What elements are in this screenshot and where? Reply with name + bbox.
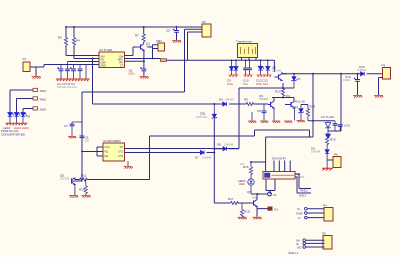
svg-text:OT2: OT2 (118, 155, 123, 158)
svg-text:Q4: Q4 (286, 94, 290, 98)
capacitor C7 (64, 122, 82, 136)
svg-text:1N4148: 1N4148 (311, 149, 321, 153)
resistor R18 (240, 203, 249, 217)
diode D7 on bus2 (195, 151, 214, 160)
wire P2 pin3 vertical (188, 32, 203, 60)
pad terminal (268, 207, 278, 212)
svg-text:D8: D8 (217, 143, 221, 147)
resistor R10 (275, 89, 285, 98)
zener ZD2 (291, 74, 300, 88)
svg-text:R12 1K: R12 1K (295, 100, 305, 104)
svg-text:104: 104 (243, 82, 248, 86)
wire to ground bar (85, 65, 87, 80)
label cluster1 (227, 79, 234, 86)
resistor R7 (135, 27, 145, 44)
wire TL431 base y120.7 (308, 120, 335, 122)
transistor Q5 (60, 174, 82, 185)
capacitor C18 (338, 124, 350, 132)
capacitor C17 (333, 121, 338, 131)
wire IC1 pin7 (125, 60, 144, 62)
svg-text:R18: R18 (244, 210, 250, 214)
junction dot x313 sense (312, 120, 314, 122)
svg-text:R14: R14 (79, 188, 85, 192)
zener ZD3 (295, 105, 304, 121)
ground under C15 (353, 96, 362, 98)
ground under R18 (238, 217, 247, 219)
wire IC1 pin4 from P1 (30, 65, 99, 68)
wire emitter node y88 (239, 83, 294, 88)
svg-text:P2: P2 (202, 20, 206, 24)
transistor Q2 (272, 66, 287, 81)
capacitor C2 (65, 62, 70, 80)
svg-text:CONVERTER BD: CONVERTER BD (1, 133, 26, 137)
svg-text:SW1: SW1 (40, 89, 47, 93)
opto top pins (272, 159, 290, 172)
wire IC1 pin6 (125, 58, 161, 60)
svg-text:CT: CT (120, 64, 124, 67)
capacitor C6 emitter (129, 50, 147, 76)
capacitor C5 polar (166, 27, 179, 40)
LED3 (21, 113, 31, 124)
wire IC1 pin2 (74, 58, 99, 60)
svg-text:1N4148: 1N4148 (225, 98, 235, 102)
wire main rail y74 (282, 73, 362, 75)
svg-text:VCC: VCC (105, 146, 110, 149)
wire bus y61 to transformer and Q2 (188, 60, 275, 72)
text block lower left (1, 129, 26, 137)
ground under Q6 (253, 217, 262, 219)
connector P1 (23, 57, 31, 72)
resistor R8 small (161, 59, 188, 62)
opto right wires to net labels (295, 174, 311, 198)
ground under P1 (32, 67, 41, 79)
svg-text:R11: R11 (81, 174, 87, 178)
svg-text:104 10u 104 10u: 104 10u 104 10u (57, 85, 77, 89)
wire collector rail y97.5 (272, 98, 294, 102)
wires U2 left pins (82, 147, 103, 156)
svg-text:Z1: Z1 (297, 77, 301, 81)
ground cluster3 (257, 75, 272, 77)
ground under P6 branch (322, 160, 333, 171)
label cluster3 (256, 79, 268, 86)
IC U2 (103, 139, 125, 161)
svg-text:IADJ: IADJ (299, 194, 306, 198)
wire sense vertical x313 (312, 74, 314, 137)
opto bottom pins (266, 179, 275, 194)
junction dots x214 (213, 148, 215, 154)
jumper J3 (33, 107, 46, 112)
svg-text:D6: D6 (219, 98, 223, 102)
wire IC1 out pin5 (125, 47, 138, 56)
wire feedback vertical x239 (238, 88, 240, 149)
svg-text:1K2: 1K2 (240, 162, 245, 166)
svg-text:P1: P1 (23, 57, 27, 61)
ground under C5 (172, 41, 181, 43)
ground under C6 (139, 77, 148, 79)
transistor Q1 (138, 42, 153, 51)
diode D9 (311, 147, 329, 161)
ground under R12 (81, 196, 90, 198)
svg-text:Transformer: Transformer (236, 40, 252, 44)
svg-text:2SC945: 2SC945 (272, 68, 282, 72)
svg-text:VR1: VR1 (156, 39, 162, 43)
svg-text:VH: VH (120, 146, 124, 149)
wire main top rail y27 (66, 26, 202, 28)
LED2 (14, 113, 20, 124)
resistor R5 (58, 27, 68, 56)
svg-text:P6: P6 (334, 153, 338, 157)
TL431 U3 (321, 115, 334, 134)
IC U1 (99, 48, 125, 68)
svg-text:LED1: LED1 (3, 126, 11, 130)
capacitor C15 output (343, 74, 360, 95)
svg-text:100u 104: 100u 104 (256, 82, 268, 86)
wire U2 output bus2 y152.5 (125, 152, 201, 154)
svg-text:V-: V- (298, 216, 301, 220)
diode D6 on wire B (219, 98, 234, 107)
capacitor C14 (257, 105, 266, 121)
opto input resistor R15 (240, 162, 253, 179)
svg-text:1N4148: 1N4148 (224, 143, 234, 147)
svg-text:104: 104 (85, 138, 90, 142)
svg-text:SW2: SW2 (40, 98, 47, 102)
ground under P3 (374, 78, 383, 98)
capacitor C3 (70, 65, 76, 80)
svg-text:LED2 LED3: LED2 LED3 (14, 126, 29, 130)
svg-text:U3 TL431: U3 TL431 (321, 115, 334, 119)
wire IC1 pin1 (66, 55, 99, 57)
junction dots y194 (250, 161, 259, 195)
svg-text:IN1: IN1 (105, 151, 109, 154)
optocoupler U4 (263, 172, 305, 180)
wire P2 pin2 vertical (185, 29, 203, 92)
svg-text:2SD880: 2SD880 (259, 97, 269, 101)
resistor R19 sense diode branch (326, 131, 336, 150)
svg-text:V1: V1 (273, 193, 277, 197)
svg-text:U2 MC34063: U2 MC34063 (103, 139, 121, 143)
svg-text:1N4744A: 1N4744A (196, 115, 207, 119)
wire A vertical x82 (81, 92, 83, 181)
connector P2 (202, 20, 211, 37)
svg-text:GND: GND (101, 64, 107, 67)
transformer T1 (236, 40, 258, 58)
svg-text:OT1: OT1 (118, 151, 123, 154)
inductor L1 (357, 65, 383, 76)
wire VR1 pins (148, 45, 158, 59)
junction dots bus (152, 58, 269, 62)
svg-text:G1: G1 (274, 208, 278, 212)
LED1 (8, 113, 14, 124)
wire collector net y194 (251, 193, 268, 195)
svg-text:P4: P4 (323, 204, 327, 208)
svg-text:SW3: SW3 (40, 108, 47, 112)
capacitor C10 (243, 60, 248, 75)
resistor R12 pulldown (79, 180, 87, 196)
svg-text:D7: D7 (195, 156, 199, 160)
svg-text:U1 TL494: U1 TL494 (99, 48, 112, 52)
wire Q6 base y203 (214, 202, 250, 204)
wire A y92 (82, 91, 185, 93)
diode D2 (230, 60, 234, 75)
wire diode D8 row y148.7 (214, 148, 239, 150)
capacitor C8 bypass (80, 136, 90, 143)
wire loop y136 (150, 130, 314, 137)
capacitor C1 (57, 65, 63, 80)
ground cluster2 (244, 75, 253, 77)
label cluster2 (243, 79, 249, 86)
connector P4 (323, 204, 333, 222)
trimmer VR1 (156, 39, 165, 51)
diode D3 (234, 60, 238, 75)
svg-text:220u: 220u (129, 72, 136, 76)
svg-text:R7: R7 (135, 34, 139, 38)
wire LED2 (17, 99, 34, 113)
svg-text:GND: GND (296, 211, 304, 215)
wire vertical x341 (340, 74, 342, 131)
svg-text:RED: RED (239, 182, 245, 186)
wire cap bottom rail (328, 130, 341, 132)
LED4 indicator (238, 179, 254, 194)
svg-text:R10: R10 (275, 90, 281, 94)
svg-text:R9: R9 (244, 98, 248, 102)
diode D4 (258, 60, 264, 75)
svg-text:SG: SG (297, 245, 302, 249)
svg-text:R15: R15 (330, 138, 336, 142)
wire U2 output bus1 y148.5 (125, 148, 240, 150)
resistor R9 on wire B (244, 98, 254, 106)
svg-text:1N4148: 1N4148 (202, 156, 212, 160)
wire B main y104 (93, 59, 269, 105)
wire LED3 (23, 109, 33, 113)
connector P5 (322, 232, 332, 250)
svg-text:C5: C5 (166, 29, 170, 33)
ground row under Q3 Q4 (248, 108, 295, 123)
svg-text:C8: C8 (257, 109, 261, 113)
wire Q6 collector to testpoint (257, 194, 268, 200)
svg-text:R3: R3 (27, 115, 31, 119)
wires P4 (296, 207, 324, 220)
diode D5 (266, 60, 270, 75)
resistor R4 (72, 27, 80, 59)
labels LED row (3, 126, 29, 130)
svg-text:P3: P3 (382, 64, 386, 68)
diode D8 feedback (214, 143, 233, 151)
resistor R17 (228, 197, 238, 205)
ground under U2 (124, 161, 133, 169)
svg-text:Q6: Q6 (247, 190, 251, 194)
wire IC1 pin3 (68, 61, 100, 63)
svg-text:R17: R17 (228, 197, 234, 201)
svg-text:VADJ-1: VADJ-1 (288, 251, 298, 255)
testpoint circle TP1 (268, 192, 277, 197)
svg-text:1000u: 1000u (343, 78, 351, 82)
wires P5 (296, 239, 325, 250)
transformer pins to bus (242, 58, 257, 61)
svg-text:IN2: IN2 (105, 155, 109, 158)
junction dot zener top (213, 103, 215, 105)
svg-text:VADJ: VADJ (300, 189, 308, 193)
svg-text:2SC945: 2SC945 (60, 176, 70, 180)
capacitor C4 (78, 65, 83, 80)
svg-text:PC817: PC817 (297, 175, 305, 179)
value labels caps row (57, 82, 77, 89)
connector P6 (327, 153, 341, 168)
resistor R13 (306, 105, 315, 121)
wire Q6 emitter (257, 206, 268, 216)
wire zener pair top (301, 104, 308, 106)
transistor Q6 (247, 190, 258, 207)
junction dots top rail (65, 26, 178, 62)
wire LED1 (10, 90, 33, 112)
ground cluster1 (229, 75, 239, 77)
connector P3 output (382, 64, 391, 80)
svg-text:P5: P5 (322, 232, 326, 236)
svg-text:1N5819: 1N5819 (357, 68, 367, 72)
jumper J2 (33, 97, 46, 102)
svg-text:C7: C7 (64, 124, 68, 128)
zener ZD1 branch (196, 104, 217, 203)
ground under ZD3 (297, 121, 305, 123)
capacitor C11 (247, 60, 252, 75)
svg-text:R5: R5 (58, 36, 62, 40)
ground under C7 (68, 137, 76, 139)
svg-text:C15: C15 (344, 124, 350, 128)
svg-text:R4: R4 (76, 39, 80, 43)
wire y179 collector run (77, 179, 150, 181)
ground bar caps row (56, 79, 90, 81)
transistor Q3 (259, 94, 274, 108)
svg-text:R1 R2 R3 R4: R1 R2 R3 R4 (272, 159, 286, 161)
wire loop vertical x144 (149, 136, 151, 180)
wire opto top y162 (251, 137, 266, 172)
resistor R11 (80, 174, 88, 182)
power arrow symbol below TL431 (325, 134, 330, 138)
transistor Q4 (285, 94, 294, 108)
svg-text:R13: R13 (310, 105, 316, 109)
svg-text:100u: 100u (227, 82, 234, 86)
svg-text:Z2: Z2 (295, 105, 299, 109)
ground bar LED row (6, 123, 28, 125)
ground under Q5 emitter (69, 184, 78, 197)
junction dots rail y74 (81, 58, 359, 153)
jumper J1 (33, 88, 46, 93)
